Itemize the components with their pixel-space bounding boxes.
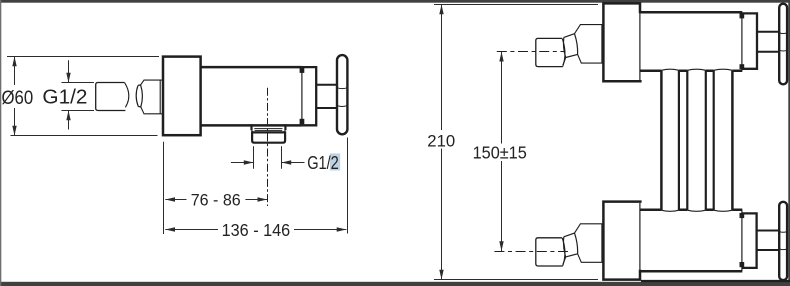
bottom bonnet, front view: [742, 213, 757, 268]
top pipe break symbol: [563, 34, 578, 65]
bottom pipe centerline: [494, 251, 568, 253]
outlet centerline: [267, 88, 269, 206]
top escutcheon, front view: [603, 3, 641, 81]
top body, front view: [640, 12, 742, 70]
dim Ø60 extension lines: [7, 57, 159, 136]
cross handle bar, side view: [337, 55, 347, 134]
svg-text:Ø60: Ø60: [2, 87, 34, 109]
bottom cross handle bar: [779, 202, 787, 280]
outlet thread lines: [254, 129, 282, 131]
bottom pipe flared connector: [575, 224, 605, 262]
dim 150±15 arrowheads: [499, 52, 503, 251]
bottom handle stem: [757, 231, 780, 251]
dim outlet G1/2 arrowheads: [244, 160, 291, 164]
svg-text:G1/2: G1/2: [307, 152, 339, 173]
svg-text:76 - 86: 76 - 86: [191, 190, 241, 209]
bottom bonnet tick upper: [740, 213, 745, 218]
dim Ø60 line: [14, 57, 16, 136]
dim 150±15 line: [501, 52, 503, 251]
outlet shoulders: [252, 124, 286, 130]
body/bonnet junction line: [301, 67, 303, 125]
top bonnet tick upper: [740, 13, 745, 18]
wall flange (escutcheon), side view: [163, 57, 201, 136]
bonnet tick top: [300, 67, 305, 73]
top bonnet tick lower: [740, 64, 745, 69]
selection highlight on outlet G1/2 "2": [330, 153, 340, 170]
top supply pipe thread, front view: [536, 38, 563, 66]
scallop arcs top: [661, 69, 732, 70]
bottom wall plate line: [641, 280, 790, 282]
top body right junction: [741, 12, 743, 70]
dim 136-146 arrowheads: [165, 227, 346, 231]
supply pipe thread G1/2, side view: [96, 83, 126, 111]
dim outlet G1/2 lines: [231, 162, 305, 164]
spout column lines between bodies: [660, 71, 663, 211]
top pipe flared connector: [575, 25, 605, 64]
bottom handle joint arcs: [779, 232, 787, 250]
svg-text:150±15: 150±15: [473, 143, 527, 163]
valve bonnet, side view: [302, 67, 316, 125]
top cross handle bar: [779, 4, 787, 85]
dim Ø60 arrowheads: [12, 57, 16, 136]
dim G1/2 left extension lines: [62, 83, 95, 111]
bottom body, front view: [640, 210, 742, 271]
outlet thread slants: [252, 130, 286, 132]
bottom bonnet tick lower: [740, 262, 745, 267]
svg-text:G1/2: G1/2: [42, 86, 87, 108]
handle joint arcs: [337, 88, 347, 107]
dim G1/2 left line: [68, 60, 70, 129]
bottom supply pipe thread, front view: [536, 238, 563, 266]
top pipe break curve at thread end: [562, 39, 565, 67]
dim 210 line: [441, 5, 443, 280]
frame border left: [0, 0, 1, 286]
bottom pipe break symbol: [563, 233, 578, 265]
dim 136-146 lines: [165, 229, 346, 231]
dim 76-86 lines: [165, 199, 267, 201]
bottom escutcheon right edge thin: [639, 203, 641, 270]
pipe break symbol (bowtie), side view: [136, 85, 142, 107]
outlet nut G1/2: [252, 132, 285, 142]
top escutcheon right edge thin: [639, 13, 641, 80]
handle stem, side view: [316, 85, 336, 108]
dim 76-86 extension line left: [163, 142, 165, 234]
svg-text:210: 210: [427, 132, 455, 151]
top handle joint arcs: [779, 33, 787, 51]
scallop arcs bottom: [661, 210, 732, 211]
bonnet tick bottom: [300, 119, 305, 125]
top bonnet, front view: [742, 13, 757, 68]
dim 210 extension lines: [434, 5, 598, 280]
frame border top: [0, 0, 790, 3]
pipe flared connector, side view: [141, 80, 164, 114]
bottom body right junction: [741, 210, 743, 271]
top pipe centerline: [497, 51, 566, 53]
frame border bottom: [0, 282, 790, 286]
frame border right: [788, 0, 790, 286]
dim 210 arrowheads: [439, 5, 443, 280]
dim G1/2 left arrowheads: [66, 73, 70, 120]
svg-text:136 - 146: 136 - 146: [222, 220, 291, 240]
dim 136-146 extension line right: [347, 138, 349, 234]
dim 76-86 arrowheads: [165, 197, 267, 201]
top handle stem: [757, 32, 779, 52]
bottom pipe break curve at thread end: [562, 238, 565, 266]
mixer body, side view: [201, 67, 302, 125]
dim outlet G1/2 extension lines: [254, 146, 282, 168]
pipe break curve at thread end, side view: [125, 83, 129, 108]
bottom escutcheon, front view: [603, 202, 641, 280]
